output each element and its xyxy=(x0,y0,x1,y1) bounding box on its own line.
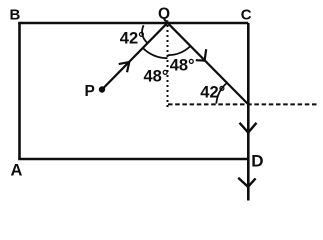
arc for left 48 degrees at Q (incident ray to normal) xyxy=(142,48,167,59)
arrowhead on incident ray xyxy=(119,62,130,72)
dotted normal line below Q xyxy=(167,25,169,109)
arc for 42 degrees at Q (between BQ edge and incident ray) xyxy=(142,25,148,43)
svg-text:A: A xyxy=(11,161,23,179)
svg-text:48°: 48° xyxy=(170,56,195,74)
rectangle side BA (left edge) xyxy=(18,23,21,159)
arrowhead on exit ray above D xyxy=(240,123,257,133)
svg-text:Q: Q xyxy=(158,5,170,22)
dashed horizontal line through incidence point on right edge xyxy=(168,103,317,105)
svg-text:P: P xyxy=(85,83,95,100)
arrowhead on reflected ray xyxy=(196,49,206,60)
arc for right 48 degrees at Q (normal to reflected ray) xyxy=(168,46,191,55)
arrowhead on exit ray below D xyxy=(238,178,255,187)
svg-text:C: C xyxy=(241,6,252,23)
svg-text:D: D xyxy=(251,151,263,170)
arc for 42 degrees at right-edge incidence point xyxy=(216,83,227,104)
incident ray P to Q xyxy=(102,23,168,90)
svg-text:42°: 42° xyxy=(200,84,225,102)
svg-text:42°: 42° xyxy=(120,30,145,48)
svg-text:48°: 48° xyxy=(144,67,169,85)
rectangle side BC (top edge) xyxy=(18,22,248,25)
point P dot xyxy=(99,86,105,92)
reflected ray Q to right edge xyxy=(168,23,249,105)
svg-text:B: B xyxy=(10,7,21,24)
right edge CD extended downward (exit ray through D) xyxy=(247,23,250,201)
rectangle side AD (bottom edge) xyxy=(18,158,248,161)
